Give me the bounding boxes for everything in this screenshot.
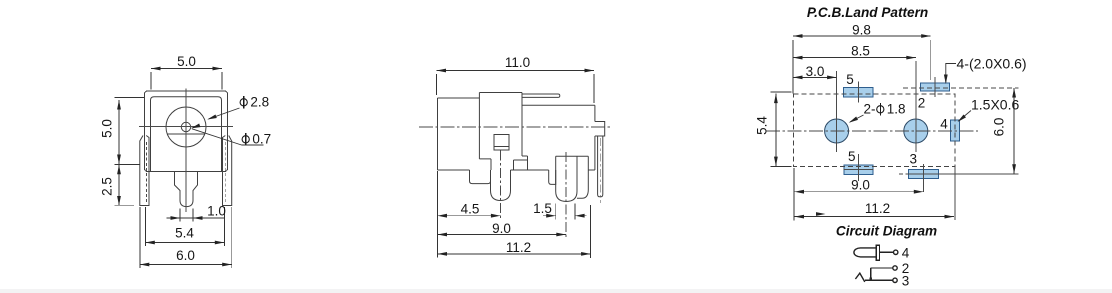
svg-text:1.8: 1.8	[887, 102, 906, 117]
svg-text:3: 3	[902, 274, 910, 289]
svg-text:6.0: 6.0	[176, 248, 195, 263]
svg-text:2-: 2-	[864, 102, 876, 117]
svg-text:2: 2	[918, 96, 926, 111]
svg-text:11.0: 11.0	[505, 55, 530, 70]
svg-text:1.5X0.6: 1.5X0.6	[971, 97, 1019, 113]
svg-text:Circuit Diagram: Circuit Diagram	[836, 224, 937, 239]
svg-text:11.2: 11.2	[865, 201, 890, 216]
svg-text:8.5: 8.5	[851, 44, 870, 59]
svg-text:P.C.B.Land Pattern: P.C.B.Land Pattern	[807, 5, 928, 20]
svg-text:0.7: 0.7	[252, 132, 271, 147]
svg-text:4-(2.0X0.6): 4-(2.0X0.6)	[957, 56, 1027, 72]
svg-text:4: 4	[902, 245, 910, 260]
svg-text:5: 5	[848, 149, 856, 164]
svg-text:4.5: 4.5	[461, 202, 480, 217]
svg-text:5.4: 5.4	[175, 226, 194, 241]
svg-text:3: 3	[909, 152, 917, 167]
svg-text:5.0: 5.0	[177, 54, 196, 69]
svg-text:5: 5	[846, 72, 854, 87]
svg-text:11.2: 11.2	[506, 240, 531, 255]
svg-text:9.8: 9.8	[852, 23, 871, 38]
svg-text:9.0: 9.0	[851, 178, 870, 193]
svg-text:5.0: 5.0	[100, 119, 115, 138]
svg-text:1.5: 1.5	[533, 201, 552, 216]
svg-text:3.0: 3.0	[806, 64, 825, 79]
svg-text:2.8: 2.8	[250, 95, 269, 110]
svg-text:6.0: 6.0	[992, 118, 1007, 137]
svg-text:1.0: 1.0	[207, 204, 226, 219]
svg-text:4: 4	[940, 117, 948, 132]
svg-text:5.4: 5.4	[755, 116, 770, 135]
svg-text:2.5: 2.5	[100, 177, 115, 196]
svg-text:9.0: 9.0	[492, 221, 511, 236]
